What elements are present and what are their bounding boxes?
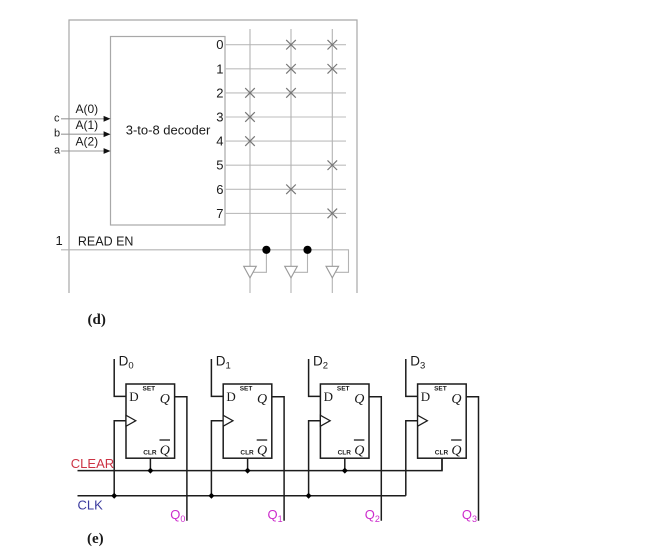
- crosspoint row4-B1: [245, 136, 255, 146]
- svg-text:Q0: Q0: [170, 507, 185, 524]
- wire CLK bus: [78, 495, 406, 497]
- D flip-flop U4 body: [320, 384, 369, 458]
- junction dot CLK-U4: [306, 493, 312, 499]
- junction dot CLEAR-U2: [147, 468, 153, 474]
- crosspoint row1-B2: [286, 64, 296, 74]
- wire D0 input: [114, 359, 126, 396]
- wire CLR pin U5: [441, 458, 443, 470]
- svg-text:D: D: [421, 389, 430, 404]
- svg-text:Q: Q: [451, 392, 461, 407]
- svg-text:READ EN: READ EN: [78, 235, 134, 249]
- svg-text:Q: Q: [257, 392, 267, 407]
- svg-text:0: 0: [216, 37, 223, 52]
- svg-text:CLR: CLR: [338, 450, 352, 457]
- tri-state buffer T2: [285, 266, 298, 278]
- svg-text:Q: Q: [160, 443, 170, 458]
- crosspoint row0-B2: [286, 40, 296, 50]
- svg-text:SET: SET: [337, 386, 350, 393]
- svg-text:D: D: [324, 389, 333, 404]
- svg-text:SET: SET: [143, 386, 156, 393]
- wire bit-line column B2: [290, 29, 292, 293]
- wire READ EN bus: [61, 250, 349, 272]
- junction dot CLEAR-U4: [342, 468, 348, 474]
- U2 pin label Qbar overline: [160, 439, 171, 441]
- svg-text:3: 3: [216, 110, 223, 125]
- wire bit-line column B1: [249, 29, 251, 293]
- wire CLR pin U2: [149, 458, 151, 470]
- crosspoint row2-B2: [286, 88, 296, 98]
- svg-text:Q: Q: [257, 443, 267, 458]
- svg-text:Q: Q: [160, 392, 170, 407]
- svg-text:D: D: [129, 389, 138, 404]
- frame (open rectangle around decoder array): [69, 20, 357, 293]
- svg-text:D2: D2: [313, 354, 328, 372]
- svg-text:Q: Q: [354, 443, 364, 458]
- svg-text:1: 1: [56, 233, 63, 248]
- wire output row 5: [225, 164, 346, 166]
- svg-text:c: c: [54, 113, 60, 125]
- wire clock input U4: [309, 421, 321, 496]
- wire D2 input: [309, 359, 321, 396]
- D flip-flop U3 body: [223, 384, 272, 458]
- svg-text:a: a: [54, 144, 61, 156]
- wire output row 0: [225, 44, 346, 46]
- wire Q0 output: [175, 397, 187, 521]
- input wire b: [61, 133, 105, 135]
- input wire a: [61, 150, 105, 152]
- crosspoint row7-B3: [328, 209, 338, 219]
- svg-text:A(2): A(2): [76, 135, 99, 149]
- U4 pin label Qbar overline: [354, 439, 365, 441]
- svg-text:1: 1: [216, 61, 223, 76]
- wire clock input U3: [211, 421, 223, 496]
- svg-text:7: 7: [216, 206, 223, 221]
- svg-text:CLEAR: CLEAR: [71, 456, 114, 471]
- U5 pin label Qbar overline: [451, 439, 462, 441]
- crosspoint X marks: [245, 40, 337, 218]
- svg-text:5: 5: [216, 158, 223, 173]
- wire D3 input: [406, 359, 418, 396]
- svg-text:D1: D1: [216, 354, 231, 372]
- crosspoint row1-B3: [328, 64, 338, 74]
- U4 clock triangle: [320, 415, 330, 426]
- svg-text:CLR: CLR: [240, 450, 254, 457]
- wire output row 2: [225, 92, 346, 94]
- svg-text:A(0): A(0): [76, 102, 99, 116]
- junction dot CLEAR-U3: [245, 468, 251, 474]
- junction dot J2 on READ EN: [303, 246, 311, 254]
- wire Q3 output: [466, 397, 478, 521]
- D flip-flop U2 body: [126, 384, 175, 458]
- crosspoint row2-B1: [245, 88, 255, 98]
- crosspoint row6-B2: [286, 185, 296, 195]
- D flip-flop U5 body: [418, 384, 467, 458]
- wire output row 6: [225, 188, 346, 190]
- wire output row 7: [225, 212, 346, 214]
- svg-text:4: 4: [216, 134, 223, 149]
- U3 pin label Qbar overline: [257, 439, 268, 441]
- svg-text:SET: SET: [240, 386, 253, 393]
- junction dot CLK-U2: [111, 493, 117, 499]
- svg-text:D: D: [226, 389, 235, 404]
- wire CLR pin U3: [247, 458, 249, 470]
- wire output row 4: [225, 140, 346, 142]
- svg-text:D3: D3: [410, 354, 425, 372]
- wire CLR pin U4: [344, 458, 346, 470]
- arrowhead input A(1): [104, 131, 111, 137]
- svg-text:Q2: Q2: [365, 507, 380, 524]
- wire Q2 output: [369, 397, 381, 521]
- svg-text:Q1: Q1: [268, 507, 283, 524]
- wire output row 1: [225, 68, 346, 70]
- crosspoint row5-B3: [328, 160, 338, 170]
- wire enable tap 1: [253, 250, 266, 272]
- tri-state buffer T1: [244, 266, 257, 278]
- svg-text:CLR: CLR: [143, 450, 157, 457]
- wire clock input U2: [114, 421, 126, 496]
- wire enable tap 2: [294, 250, 307, 272]
- svg-text:Q3: Q3: [462, 507, 477, 524]
- input wire c: [61, 118, 105, 120]
- U5 clock triangle: [418, 415, 428, 426]
- svg-text:D0: D0: [119, 354, 134, 372]
- tri-state buffer T3: [326, 266, 339, 278]
- wire output row 3: [225, 116, 346, 118]
- wire clock input U5: [406, 421, 418, 496]
- wire bit-line column B3: [331, 29, 333, 293]
- svg-text:Q: Q: [354, 392, 364, 407]
- svg-text:3-to-8 decoder: 3-to-8 decoder: [126, 123, 211, 138]
- svg-text:SET: SET: [434, 386, 447, 393]
- svg-text:b: b: [54, 128, 60, 140]
- svg-text:(d): (d): [88, 312, 106, 328]
- crosspoint row0-B3: [328, 40, 338, 50]
- U3 clock triangle: [223, 415, 233, 426]
- svg-text:2: 2: [216, 85, 223, 100]
- decoder box U1: [111, 37, 226, 226]
- arrowhead input A(0): [104, 116, 111, 122]
- decoder output pin numbers: [216, 37, 223, 221]
- wire D1 input: [211, 359, 223, 396]
- svg-text:CLR: CLR: [435, 450, 449, 457]
- svg-text:CLK: CLK: [78, 498, 104, 513]
- junction dot J1 on READ EN: [262, 246, 270, 254]
- svg-text:(e): (e): [87, 531, 104, 547]
- svg-text:6: 6: [216, 182, 223, 197]
- svg-text:Q: Q: [451, 443, 461, 458]
- U2 clock triangle: [126, 415, 136, 426]
- svg-text:A(1): A(1): [76, 118, 99, 132]
- arrowhead input A(2): [104, 148, 111, 154]
- crosspoint row3-B1: [245, 112, 255, 122]
- wire Q1 output: [272, 397, 284, 521]
- junction dot CLK-U3: [208, 493, 214, 499]
- wire CLEAR bus: [78, 458, 443, 470]
